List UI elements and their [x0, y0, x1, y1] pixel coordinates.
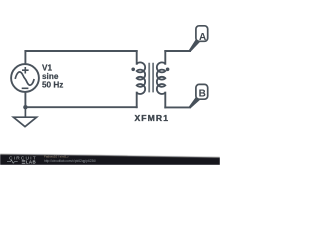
voltage source V1 circle — [11, 64, 39, 92]
wire XFMR1 primary bottom stem — [136, 93, 138, 108]
wire secondary bottom to terminal B — [165, 106, 190, 108]
wire bottom bus from node to XFMR1 primary — [25, 106, 136, 108]
wire V1 bottom lead — [24, 92, 26, 107]
transformer XFMR1 primary winding — [137, 62, 145, 94]
voltage source V1 minus sign — [22, 87, 29, 89]
node junction dot at V1/ground — [23, 105, 27, 109]
voltage source V1 sine wave — [15, 72, 34, 85]
wire XFMR1 secondary top stem — [164, 51, 166, 64]
wire top bus from V1 to XFMR1 primary — [25, 50, 136, 52]
voltage source V1 plus sign — [22, 67, 29, 74]
wire XFMR1 primary top stem — [136, 51, 138, 64]
terminal flag B box — [189, 84, 208, 108]
transformer XFMR1 primary polarity dot — [131, 68, 135, 72]
svg-text:B: B — [199, 89, 206, 100]
transformer XFMR1 secondary winding — [157, 62, 165, 94]
wire XFMR1 secondary bottom stem — [164, 93, 166, 108]
transformer XFMR1 core lines — [149, 63, 153, 93]
svg-text:http://circuitlab.com/c/pk62qg: http://circuitlab.com/c/pk62qg/p6236/ — [44, 159, 96, 163]
watermark CircuitLab bar — [0, 154, 220, 165]
svg-text:50 Hz: 50 Hz — [42, 80, 63, 89]
svg-text:XFMR1: XFMR1 — [134, 113, 169, 123]
svg-text:☰LAB: ☰LAB — [22, 159, 37, 164]
wire secondary top to terminal A — [165, 50, 190, 52]
terminal flag A box — [189, 26, 208, 52]
transformer XFMR1 secondary polarity dot — [166, 68, 170, 72]
svg-text:A: A — [199, 32, 206, 43]
wire V1 top lead — [24, 51, 26, 64]
ground symbol — [13, 107, 36, 127]
